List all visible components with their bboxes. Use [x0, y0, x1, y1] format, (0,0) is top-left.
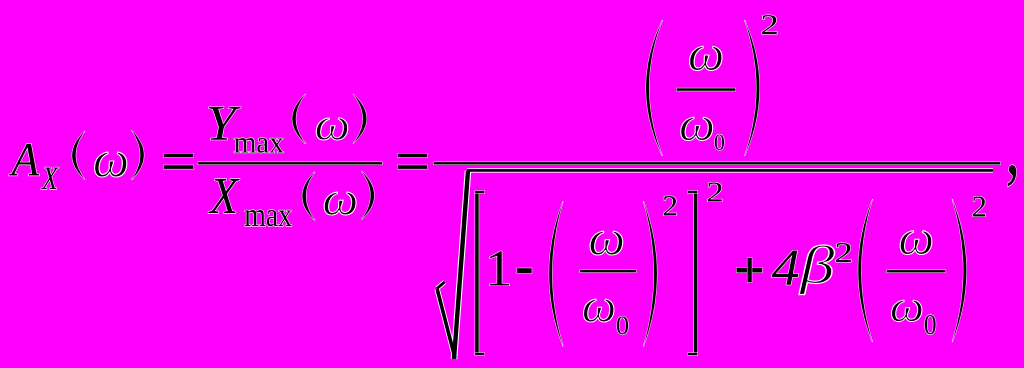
close paren main — [132, 130, 144, 180]
svg-text:2: 2 — [834, 237, 853, 269]
fraction bar 1 — [198, 162, 382, 164]
open paren den1 — [302, 172, 315, 221]
open paren group1 — [549, 201, 563, 346]
svg-text:2: 2 — [761, 9, 779, 41]
svg-text:ω: ω — [679, 96, 715, 151]
svg-text:0: 0 — [616, 310, 629, 340]
equals 2 bottom bar — [398, 165, 428, 169]
small fraction bar group2 — [887, 270, 946, 272]
svg-text:ω: ω — [93, 132, 129, 189]
equals 1 top bar — [164, 154, 194, 158]
svg-text:ω: ω — [315, 99, 350, 150]
close paren big numerator — [745, 20, 760, 156]
plus horizontal bar — [737, 268, 763, 273]
small fraction bar group1 — [580, 270, 636, 273]
svg-text:A: A — [9, 133, 40, 186]
radical sign — [437, 170, 993, 359]
open paren big numerator — [646, 20, 663, 156]
open paren num1 — [292, 94, 306, 144]
open paren main — [72, 131, 85, 180]
minus sign — [517, 268, 532, 273]
svg-text:0: 0 — [714, 129, 725, 155]
svg-text:max: max — [244, 195, 292, 233]
right bracket top serif — [688, 191, 698, 193]
open paren group2 — [858, 199, 872, 342]
right bracket bottom serif — [688, 353, 698, 355]
svg-text:ω: ω — [898, 209, 934, 265]
svg-text:β: β — [799, 236, 835, 295]
plus vertical bar — [747, 258, 751, 283]
svg-text:2: 2 — [972, 190, 987, 224]
big fraction bar — [434, 162, 1001, 164]
equals 2 top bar — [398, 154, 428, 158]
svg-text:,: , — [1005, 101, 1019, 193]
left bracket top serif — [475, 191, 484, 193]
svg-text:4: 4 — [772, 239, 800, 296]
close paren group1 — [643, 201, 657, 346]
svg-text:ω: ω — [582, 280, 616, 332]
svg-text:X: X — [41, 161, 59, 196]
equals 1 bottom bar — [164, 165, 194, 169]
svg-text:2: 2 — [662, 190, 678, 223]
svg-text:2: 2 — [706, 177, 724, 208]
close paren group2 — [952, 199, 966, 342]
svg-text:X: X — [208, 166, 240, 224]
small fraction bar numerator — [677, 88, 736, 91]
svg-text:ω: ω — [588, 210, 625, 265]
svg-text:max: max — [234, 126, 284, 160]
right bracket vertical — [694, 191, 697, 355]
svg-text:0: 0 — [924, 309, 937, 341]
svg-text:ω: ω — [890, 283, 924, 332]
svg-text:1: 1 — [485, 240, 512, 298]
svg-text:ω: ω — [688, 25, 724, 82]
left bracket vertical — [475, 191, 479, 355]
svg-text:ω: ω — [322, 172, 358, 225]
close paren num1 — [353, 94, 367, 144]
left bracket bottom serif — [475, 353, 484, 355]
close paren den1 — [361, 171, 374, 220]
